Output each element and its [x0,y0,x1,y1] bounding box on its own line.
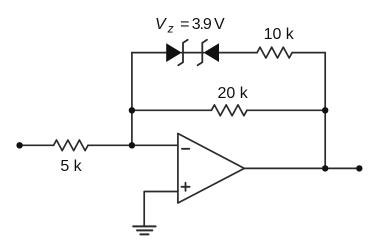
node junction 20k right [322,107,328,113]
svg-text:5 k: 5 k [60,158,82,175]
wire 10k to right bus [292,52,325,54]
wire input left [20,144,54,146]
node junction inverting [129,142,135,148]
svg-text:Vz= 3.9 V: Vz= 3.9 V [155,16,225,36]
zener diode D2 [204,43,220,62]
wire input to inverting node [88,144,178,146]
node junction output [322,165,328,171]
node terminal input [16,142,22,148]
op-amp minus sign [182,148,189,150]
wire 20k branch left [132,109,212,111]
wire top branch to D1 [132,52,167,54]
zener D1 cathode bar [178,40,187,66]
zener diode D1 [166,43,182,62]
node junction 20k left [129,107,135,113]
op-amp plus sign [181,183,189,191]
svg-text:10 k: 10 k [264,26,295,43]
wire between zeners [182,52,204,54]
resistor R1 5 k [54,140,88,151]
zener D2 cathode bar [198,40,207,66]
node terminal output [356,165,362,171]
svg-text:20 k: 20 k [217,85,248,102]
wire left vertical bus [131,53,133,146]
ground [133,226,155,234]
wire noninverting input [144,192,178,227]
wire right vertical bus [324,53,326,169]
op-amp U1 [178,134,244,204]
wire D2 to 10k [219,52,257,54]
resistor R3 20 k [211,105,247,116]
wire output [244,167,359,169]
wire 20k to right bus [247,109,325,111]
resistor R2 10 k [257,47,292,58]
